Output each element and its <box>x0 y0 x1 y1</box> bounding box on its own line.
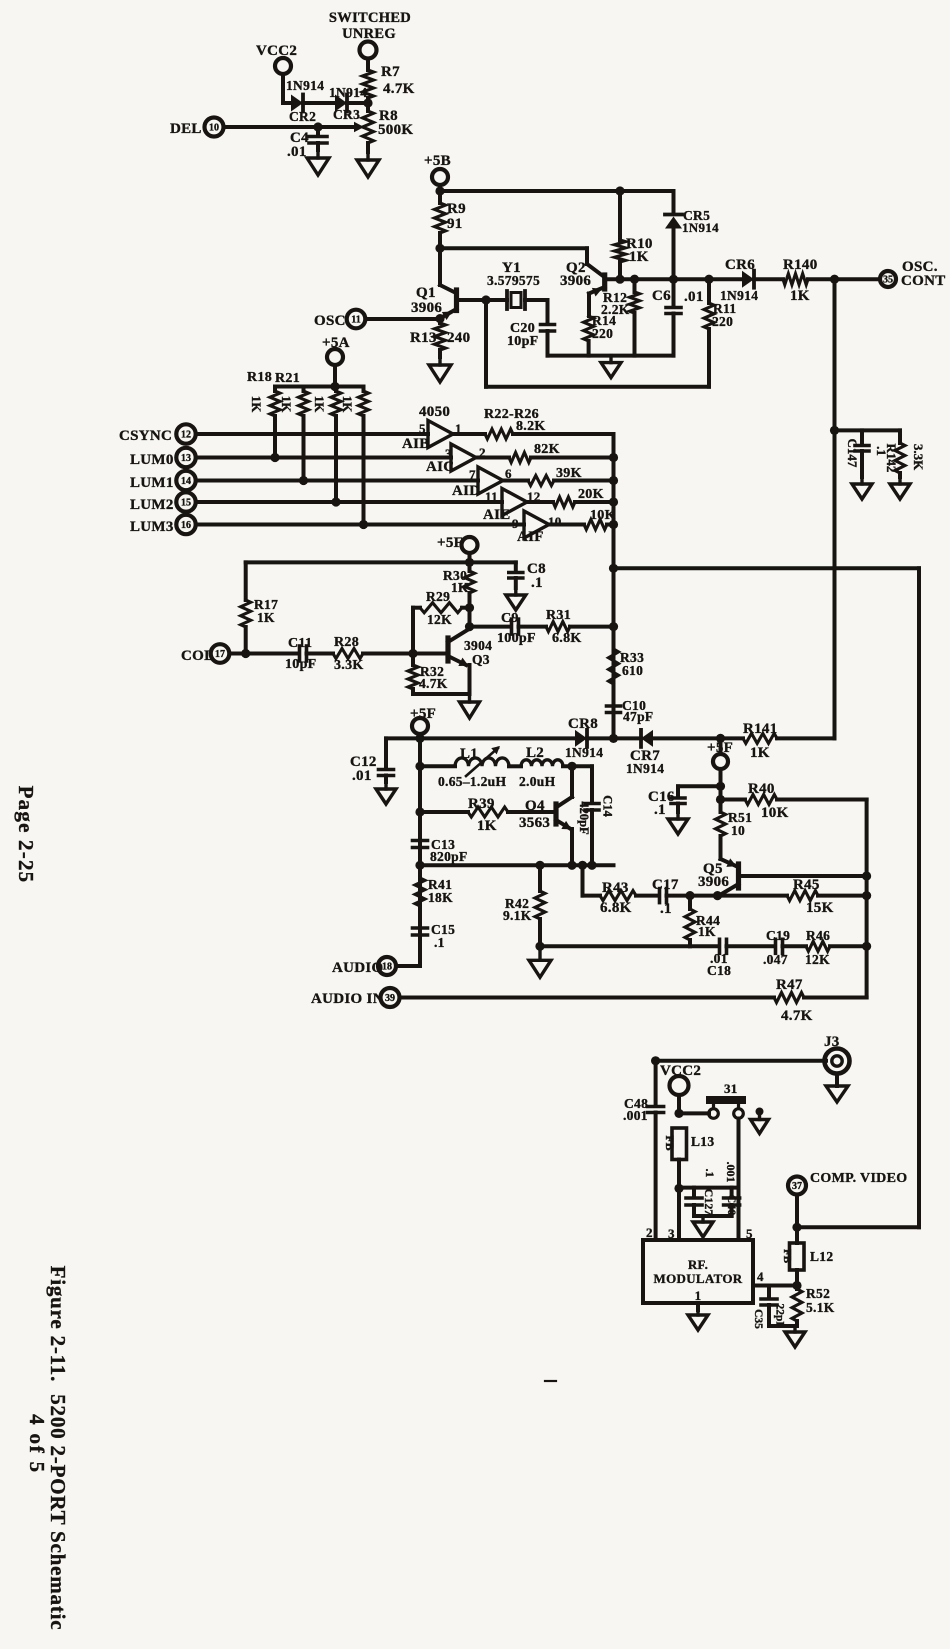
ground under R13 <box>429 357 451 382</box>
svg-text:.1: .1 <box>654 802 666 818</box>
svg-text:10pF: 10pF <box>507 334 539 349</box>
power terminal +5F (3) <box>707 738 733 769</box>
svg-text:AIF: AIF <box>517 529 544 545</box>
capacitor C9 100pF <box>497 611 546 646</box>
node R32/R29 riser <box>408 649 417 658</box>
wire modulation ground rail <box>420 861 614 870</box>
resistor R8 500K (pot) <box>363 103 414 152</box>
svg-text:18K: 18K <box>428 890 453 905</box>
terminal DEL pin 10 <box>170 118 356 138</box>
svg-text:1K: 1K <box>750 745 770 761</box>
svg-text:R18: R18 <box>247 370 272 385</box>
svg-text:LUM1: LUM1 <box>130 475 174 491</box>
resistor R14 220 <box>584 313 617 356</box>
wire pin 4 <box>753 1269 797 1286</box>
wire top rail +5B <box>435 186 673 195</box>
node Q1 emitter <box>435 314 444 323</box>
power terminal VCC2 (2) <box>660 1063 701 1113</box>
svg-text:CONT: CONT <box>901 273 946 289</box>
svg-text:.01: .01 <box>684 289 704 305</box>
resistor R44 1K <box>685 896 720 947</box>
svg-text:.01: .01 <box>287 144 307 160</box>
svg-text:13: 13 <box>181 453 191 464</box>
node bus on diode line <box>609 734 618 743</box>
resistor R23 82K <box>476 442 614 463</box>
caption Figure 2-11 <box>46 1266 70 1631</box>
ground under C8 <box>506 588 526 610</box>
node Q5 collector joint <box>713 891 722 900</box>
svg-text:31: 31 <box>724 1081 738 1096</box>
node R17 on COL line <box>241 649 250 658</box>
svg-text:1N914: 1N914 <box>329 85 367 100</box>
terminal LUM1 pin 14 <box>130 471 478 491</box>
svg-text:3906: 3906 <box>411 300 442 316</box>
svg-text:5: 5 <box>746 1226 753 1241</box>
svg-text:1K: 1K <box>257 610 275 625</box>
diode CR7 1N914 <box>626 730 664 776</box>
resistor R20 1K <box>312 387 341 503</box>
wire Q1 base drop <box>484 300 488 387</box>
power terminal SWITCHED UNREG <box>329 10 411 70</box>
wire CR8 to CR7 <box>587 736 641 740</box>
svg-text:10: 10 <box>548 514 562 529</box>
transistor Q5 3906 <box>698 836 739 895</box>
svg-text:FB: FB <box>781 1249 793 1264</box>
svg-text:1K: 1K <box>790 288 810 304</box>
svg-text:3906: 3906 <box>698 874 729 890</box>
node R30/R29 <box>465 603 474 612</box>
resistor R12 2.2K <box>601 279 640 355</box>
wire R140 to OSC CONT <box>808 275 880 284</box>
capacitor C6 .01 <box>652 279 704 355</box>
svg-text:R13: R13 <box>410 330 437 346</box>
svg-text:.1: .1 <box>703 1169 717 1178</box>
svg-text:15: 15 <box>181 497 191 508</box>
capacitor C13 820pF <box>413 837 468 864</box>
svg-text:L2: L2 <box>526 745 544 761</box>
buffer AIE <box>483 489 541 524</box>
svg-text:R142: R142 <box>884 444 899 473</box>
svg-text:240: 240 <box>447 330 470 346</box>
svg-text:3563: 3563 <box>519 815 550 831</box>
svg-text:820pF: 820pF <box>430 849 468 864</box>
diode CR3 1N914 <box>329 85 368 122</box>
svg-text:Q1: Q1 <box>416 285 436 301</box>
resistor R18 1K <box>249 387 280 458</box>
terminal COMP VIDEO pin 37 <box>788 1171 907 1243</box>
svg-text:4.7K: 4.7K <box>383 81 415 97</box>
svg-text:C6: C6 <box>652 288 671 304</box>
ground under R52 <box>785 1326 805 1347</box>
resistor R24 39K <box>503 466 614 486</box>
svg-text:AIB: AIB <box>402 436 430 452</box>
resistor R141 1K <box>743 721 835 761</box>
resistor R40 10K <box>721 781 867 821</box>
svg-text:L12: L12 <box>810 1249 833 1264</box>
wire decoupling branch <box>679 1186 739 1190</box>
wire +5F3 down <box>719 769 723 812</box>
svg-text:C11: C11 <box>288 636 312 651</box>
svg-text:2: 2 <box>646 1225 653 1240</box>
wire J3 line <box>651 1056 826 1065</box>
svg-text:.001: .001 <box>724 1162 738 1183</box>
power terminal +5A <box>322 335 350 387</box>
svg-text:R28: R28 <box>334 635 359 650</box>
connector J3 <box>824 1034 850 1086</box>
svg-text:11: 11 <box>351 314 360 325</box>
wire R43 riser <box>578 861 587 896</box>
svg-text:CR8: CR8 <box>568 716 598 732</box>
node Q4 collector branch <box>567 762 576 771</box>
wire lower return rail <box>486 385 709 389</box>
svg-text:7: 7 <box>469 467 476 482</box>
svg-text:1N914: 1N914 <box>720 288 758 303</box>
svg-text:39K: 39K <box>556 466 582 481</box>
capacitor C147 .1 <box>845 430 889 477</box>
svg-text:8.2K: 8.2K <box>516 419 546 434</box>
svg-text:15K: 15K <box>806 900 834 916</box>
svg-text:1K: 1K <box>249 396 264 414</box>
svg-text:R39: R39 <box>468 796 495 812</box>
node R31 on bus <box>609 622 618 631</box>
svg-text:1K: 1K <box>451 580 469 595</box>
terminal AUDIO pin 18 <box>332 957 420 976</box>
resistor R52 5.1K <box>792 1286 835 1326</box>
diode CR2 1N914 <box>286 78 335 124</box>
node VCC2 to channel jumper <box>674 1109 683 1118</box>
svg-text:35: 35 <box>883 274 893 285</box>
wire video line to right edge <box>614 566 920 570</box>
svg-text:VCC2: VCC2 <box>256 43 297 59</box>
svg-text:C9: C9 <box>501 611 519 626</box>
svg-text:.1: .1 <box>531 575 543 591</box>
terminal LUM3 pin 16 <box>130 515 524 535</box>
caption 4 of 5 <box>25 1414 49 1474</box>
ground under C127/C40 <box>693 1216 713 1237</box>
svg-text:C19: C19 <box>766 928 790 943</box>
wire R30 to Q3 collector <box>468 608 472 627</box>
node R20 on LUM2 <box>331 497 340 506</box>
svg-text:4: 4 <box>757 1269 764 1284</box>
svg-text:.047: .047 <box>763 952 788 967</box>
svg-text:L13: L13 <box>691 1134 714 1149</box>
capacitor C14 420pF <box>577 766 615 865</box>
label R18-R21 <box>247 370 300 386</box>
svg-text:Page 2-25: Page 2-25 <box>14 786 38 884</box>
node pin4 <box>792 1281 801 1290</box>
ground under R8 <box>357 152 379 177</box>
svg-text:4 of 5: 4 of 5 <box>25 1414 49 1474</box>
svg-text:C14: C14 <box>601 795 615 817</box>
svg-text:AID: AID <box>452 483 480 499</box>
resistor R39 1K <box>420 796 554 834</box>
terminal AUDIO IN pin 39 <box>311 988 774 1007</box>
svg-text:1K: 1K <box>340 396 355 414</box>
resistor R41 18K <box>415 877 453 906</box>
svg-text:39: 39 <box>385 993 395 1004</box>
resistor R25 20K <box>527 487 614 507</box>
wire pullup bus <box>275 382 364 391</box>
svg-text:R31: R31 <box>546 608 571 623</box>
svg-text:R45: R45 <box>793 877 820 893</box>
RF modulator box <box>643 1240 753 1303</box>
svg-text:5.1K: 5.1K <box>806 1300 835 1315</box>
svg-text:DEL: DEL <box>170 121 202 137</box>
wire L12 to pin4 node <box>795 1270 799 1289</box>
ferrite bead L12 <box>781 1243 833 1270</box>
svg-text:91: 91 <box>447 216 463 232</box>
svg-text:LUM2: LUM2 <box>130 497 174 513</box>
svg-text:MODULATOR: MODULATOR <box>654 1271 743 1286</box>
svg-text:4.7K: 4.7K <box>781 1008 813 1024</box>
svg-text:FB: FB <box>663 1135 677 1150</box>
svg-text:37: 37 <box>792 1181 802 1192</box>
svg-text:.001: .001 <box>623 1108 648 1123</box>
svg-text:R52: R52 <box>806 1286 830 1301</box>
svg-text:CR3: CR3 <box>333 107 360 122</box>
svg-text:OSC: OSC <box>314 313 346 329</box>
power terminal +5F <box>437 535 478 562</box>
svg-text:4050: 4050 <box>419 404 450 420</box>
resistor R22 8.2K <box>453 419 614 439</box>
wire COMP VIDEO node <box>792 1223 919 1232</box>
ground stub right of jumper <box>751 1112 769 1134</box>
svg-text:82K: 82K <box>534 442 560 457</box>
pin 2 label <box>646 1225 653 1240</box>
node Q1/Q2 collector branch <box>435 244 444 253</box>
wire right bus down from R140 <box>833 279 837 738</box>
resistor R17 1K <box>241 562 278 653</box>
svg-text:4.7K: 4.7K <box>419 676 448 691</box>
svg-text:RF.: RF. <box>688 1257 708 1272</box>
arrow through L1 <box>466 746 500 776</box>
wire +5F rail <box>246 558 516 567</box>
svg-text:3.579575: 3.579575 <box>487 273 540 288</box>
svg-text:1N914: 1N914 <box>286 78 324 93</box>
svg-text:R141: R141 <box>743 721 778 737</box>
capacitor C20 10pF <box>507 300 555 356</box>
wiper arrow into R8 <box>354 122 364 132</box>
svg-text:1K: 1K <box>629 249 649 265</box>
power terminal +5B <box>424 153 451 191</box>
svg-text:1K: 1K <box>698 924 716 939</box>
resistor R29 12K <box>413 589 470 654</box>
capacitor C19 .047 <box>763 928 806 967</box>
svg-text:12: 12 <box>181 429 191 440</box>
wire L1 line <box>420 764 455 768</box>
resistor R46 12K <box>805 928 867 967</box>
ground under R42 <box>529 946 551 977</box>
label R22-R26 <box>484 407 539 422</box>
svg-text:2.0uH: 2.0uH <box>519 774 556 789</box>
svg-text:610: 610 <box>622 663 643 678</box>
transistor Q4 3563 <box>519 798 572 831</box>
wire oscillator ground rail <box>548 354 674 358</box>
wire OSC CONT rail <box>606 275 743 284</box>
svg-text:SWITCHED: SWITCHED <box>329 10 411 26</box>
diode CR8 1N914 <box>565 716 603 760</box>
wire Q4 emitter <box>570 829 574 865</box>
pin 3 label <box>668 1226 675 1241</box>
ground under Q3 <box>460 694 480 718</box>
svg-text:COMP. VIDEO: COMP. VIDEO <box>810 1171 907 1186</box>
svg-text:+5B: +5B <box>424 153 451 169</box>
resistor R32 4.7K <box>408 654 470 695</box>
ground under C12 <box>376 782 396 804</box>
resistor R28 3.3K <box>333 635 413 673</box>
svg-text:CR2: CR2 <box>289 109 316 124</box>
svg-text:1N914: 1N914 <box>626 761 664 776</box>
resistor R26 10K <box>549 508 616 530</box>
resistor R9 91 <box>435 191 466 248</box>
svg-text:0.65–1.2uH: 0.65–1.2uH <box>438 774 506 789</box>
wire CR8 line <box>420 736 575 740</box>
svg-text:2.2K: 2.2K <box>601 302 630 317</box>
ground on oscillator rail <box>601 356 621 378</box>
wire summing bus <box>609 434 618 738</box>
svg-text:1: 1 <box>695 1288 702 1303</box>
resistor R140 1K <box>783 257 818 304</box>
node C4 junction <box>313 122 322 131</box>
node C147 branch <box>830 426 839 435</box>
svg-text:1K: 1K <box>312 396 327 414</box>
svg-text:CR6: CR6 <box>725 257 755 273</box>
svg-text:Q3: Q3 <box>472 652 490 667</box>
svg-text:1K: 1K <box>477 818 497 834</box>
svg-text:LUM3: LUM3 <box>130 519 174 535</box>
capacitor C11 10pF <box>285 636 333 672</box>
svg-text:R47: R47 <box>776 977 803 993</box>
svg-text:.01: .01 <box>352 768 372 784</box>
wire Q4 collector <box>558 766 573 806</box>
svg-text:6.8K: 6.8K <box>600 900 632 916</box>
node Q5 base on bus <box>862 871 871 880</box>
svg-text:17: 17 <box>215 649 225 660</box>
node decoupling branch <box>674 1184 683 1193</box>
resistor R45 15K <box>718 877 867 916</box>
node R45 on bus <box>862 891 871 900</box>
node R42 bottom <box>535 942 544 951</box>
svg-text:12K: 12K <box>805 952 830 967</box>
ground under modulator pin 1 <box>688 1303 708 1330</box>
svg-text:R46: R46 <box>806 928 830 943</box>
capacitor C127 .1 <box>686 1169 717 1217</box>
node R46 on bus <box>862 942 871 951</box>
node Q3 collector <box>465 622 474 631</box>
node floating ground tap <box>756 1108 764 1116</box>
svg-text:C147: C147 <box>845 439 860 468</box>
svg-text:C17: C17 <box>652 877 679 893</box>
svg-text:C40: C40 <box>725 1195 739 1216</box>
wire to jumper <box>679 1111 709 1115</box>
svg-text:10: 10 <box>731 823 745 838</box>
terminal OSC CONT pin 35 <box>880 259 946 289</box>
buffer AIC <box>426 444 486 475</box>
wire collector line <box>470 625 511 629</box>
node Q1 base / crystal <box>481 295 490 304</box>
resistor R31 6.8K <box>546 608 614 646</box>
ground under J3 <box>826 1086 848 1102</box>
capacitor C4 .01 <box>287 127 327 160</box>
resistor R43 6.8K <box>583 880 657 916</box>
node R40 branch <box>716 795 725 804</box>
resistor R21 1K <box>340 387 369 525</box>
ferrite bead L13 <box>663 1128 714 1160</box>
node bus to video line <box>609 564 618 573</box>
label 4050 <box>419 404 450 420</box>
node R18 on LUM0 <box>270 453 279 462</box>
stray mark <box>545 1380 556 1382</box>
svg-text:AUDIO IN: AUDIO IN <box>311 991 384 1007</box>
wire Q5 base <box>739 874 867 878</box>
transistor Q3 3904 <box>413 630 492 667</box>
svg-text:R21: R21 <box>275 371 300 386</box>
svg-text:1K: 1K <box>279 396 294 414</box>
wire R52/C35 common <box>769 1324 797 1328</box>
svg-text:3.3K: 3.3K <box>334 658 364 673</box>
resistor R51 10 <box>716 810 753 838</box>
node C16 branch <box>716 782 725 791</box>
capacitor C10 47pF <box>607 684 654 738</box>
wire L13 down <box>677 1160 681 1241</box>
wire CR7 to +5F3 <box>653 734 743 743</box>
resistor R19 1K <box>279 387 309 481</box>
svg-text:100pF: 100pF <box>497 631 536 646</box>
wire jumper to pin5 <box>737 1119 741 1241</box>
capacitor C8 .1 <box>509 561 546 591</box>
resistor R11 220 <box>704 279 736 387</box>
svg-text:10: 10 <box>209 122 219 133</box>
power terminal +5F (2) <box>410 706 436 966</box>
svg-text:16: 16 <box>181 520 191 531</box>
wire mixer line <box>540 944 718 948</box>
svg-text:R43: R43 <box>602 880 629 896</box>
transistor Q1 3906 <box>411 285 486 320</box>
svg-text:3906: 3906 <box>560 273 591 289</box>
svg-text:12K: 12K <box>427 612 452 627</box>
capacitor C40 .001 <box>724 1162 740 1217</box>
node R7/R8/CR3 junction <box>363 98 372 107</box>
wire right edge drop <box>917 568 921 1227</box>
svg-text:5: 5 <box>419 421 426 436</box>
terminal LUM0 pin 13 <box>130 448 451 468</box>
node R44 top <box>685 891 694 900</box>
node R21 on LUM3 <box>359 520 368 529</box>
buffer AIB <box>402 421 462 453</box>
wire C147/R142 branch <box>835 428 901 432</box>
svg-text:R9: R9 <box>447 201 466 217</box>
svg-text:CSYNC: CSYNC <box>119 428 172 444</box>
buffer AIF <box>512 511 562 545</box>
capacitor C17 .1 <box>652 877 718 917</box>
capacitor C16 .1 <box>648 786 721 818</box>
svg-text:R29: R29 <box>426 589 450 604</box>
inductor L2 2.0uH <box>519 745 592 789</box>
resistor R30 1K <box>443 562 475 607</box>
svg-text:3: 3 <box>668 1226 675 1241</box>
svg-text:6.8K: 6.8K <box>552 631 582 646</box>
svg-text:11: 11 <box>485 489 498 504</box>
channel switch 31 <box>709 1081 744 1118</box>
wire R9 to Q1 <box>438 248 442 285</box>
caption Page 2-25 <box>14 786 38 884</box>
capacitor C12 .01 <box>350 738 420 784</box>
svg-text:LUM0: LUM0 <box>130 452 174 468</box>
crystal Y1 3.579575 <box>486 260 548 309</box>
svg-text:220: 220 <box>712 314 733 329</box>
svg-text:3904: 3904 <box>464 638 492 653</box>
svg-text:C35: C35 <box>752 1309 764 1329</box>
